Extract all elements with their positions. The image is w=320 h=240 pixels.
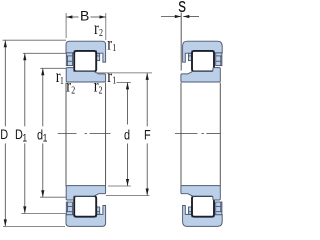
label s — [178, 0, 186, 16]
dimension D line + arrows — [4, 40, 6, 126]
dimension d1 line + arrows — [42, 69, 44, 127]
s reference line from displaced inner ring face — [180, 13, 182, 71]
dimension d extension lines — [117, 81, 131, 83]
roller lower — [74, 196, 96, 217]
dimension d line + arrows — [127, 83, 129, 125]
dimension d1 extension lines — [40, 67, 66, 69]
dimension D1 line + arrows — [24, 54, 26, 127]
inner ring face silhouette right — [219, 83, 221, 187]
svg-text:1: 1 — [60, 75, 64, 86]
cage lower — [66, 202, 99, 215]
inner ring upper — [66, 68, 105, 82]
outer ring lower (mirror) — [66, 206, 106, 227]
svg-text:F: F — [144, 127, 151, 143]
svg-text:1: 1 — [43, 133, 48, 145]
label r1 top right — [107, 33, 112, 54]
label D1 — [15, 127, 23, 143]
dimension D extension lines — [3, 39, 67, 41]
dimension F line + arrows — [146, 73, 148, 126]
label d — [124, 127, 130, 143]
svg-text:s: s — [178, 0, 186, 16]
dimension s line + arrows — [161, 16, 181, 18]
label D — [0, 127, 8, 143]
outer ring upper — [66, 41, 106, 62]
label F — [144, 127, 151, 143]
dimension F extension lines — [97, 72, 152, 74]
inner ring lower right view — [181, 186, 220, 200]
label r1 left — [56, 65, 61, 86]
svg-text:1: 1 — [22, 133, 27, 145]
roller upper — [74, 51, 96, 72]
outer ring upper right view — [183, 41, 223, 62]
svg-text:1: 1 — [112, 75, 116, 86]
label r2 top — [94, 18, 99, 39]
dimension B line + arrows — [66, 16, 78, 18]
inner ring lower — [66, 186, 105, 200]
label r1 right — [107, 65, 112, 86]
label r2 bottom left — [66, 75, 71, 96]
svg-text:2: 2 — [99, 27, 103, 38]
dimension B extension lines — [65, 13, 67, 38]
svg-text:B: B — [80, 8, 89, 24]
svg-text:D: D — [0, 127, 8, 143]
cage upper — [66, 53, 99, 66]
roller lower right view — [192, 196, 214, 217]
svg-text:d: d — [124, 127, 130, 143]
inner ring face silhouette left — [180, 83, 182, 187]
dimension D1 extension lines — [23, 52, 66, 54]
centerline of right view — [175, 133, 220, 135]
svg-text:1: 1 — [112, 42, 116, 53]
bearing dimensional drawing, cylindrical roller bearing NJ design, two views — [0, 0, 224, 228]
label d1 — [37, 127, 43, 143]
centerline of left view — [58, 133, 111, 135]
label r2 bottom right — [94, 75, 99, 96]
wire: bore silhouette line left — [65, 83, 67, 187]
inner ring upper right view (displaced axially) — [181, 68, 220, 82]
roller upper right view — [192, 51, 214, 72]
wire: bore silhouette line right — [105, 83, 107, 187]
outer ring lower right view — [183, 206, 223, 227]
svg-text:2: 2 — [71, 84, 75, 95]
cage upper right view — [189, 53, 222, 66]
svg-text:2: 2 — [99, 84, 103, 95]
cage lower right view — [189, 202, 222, 215]
